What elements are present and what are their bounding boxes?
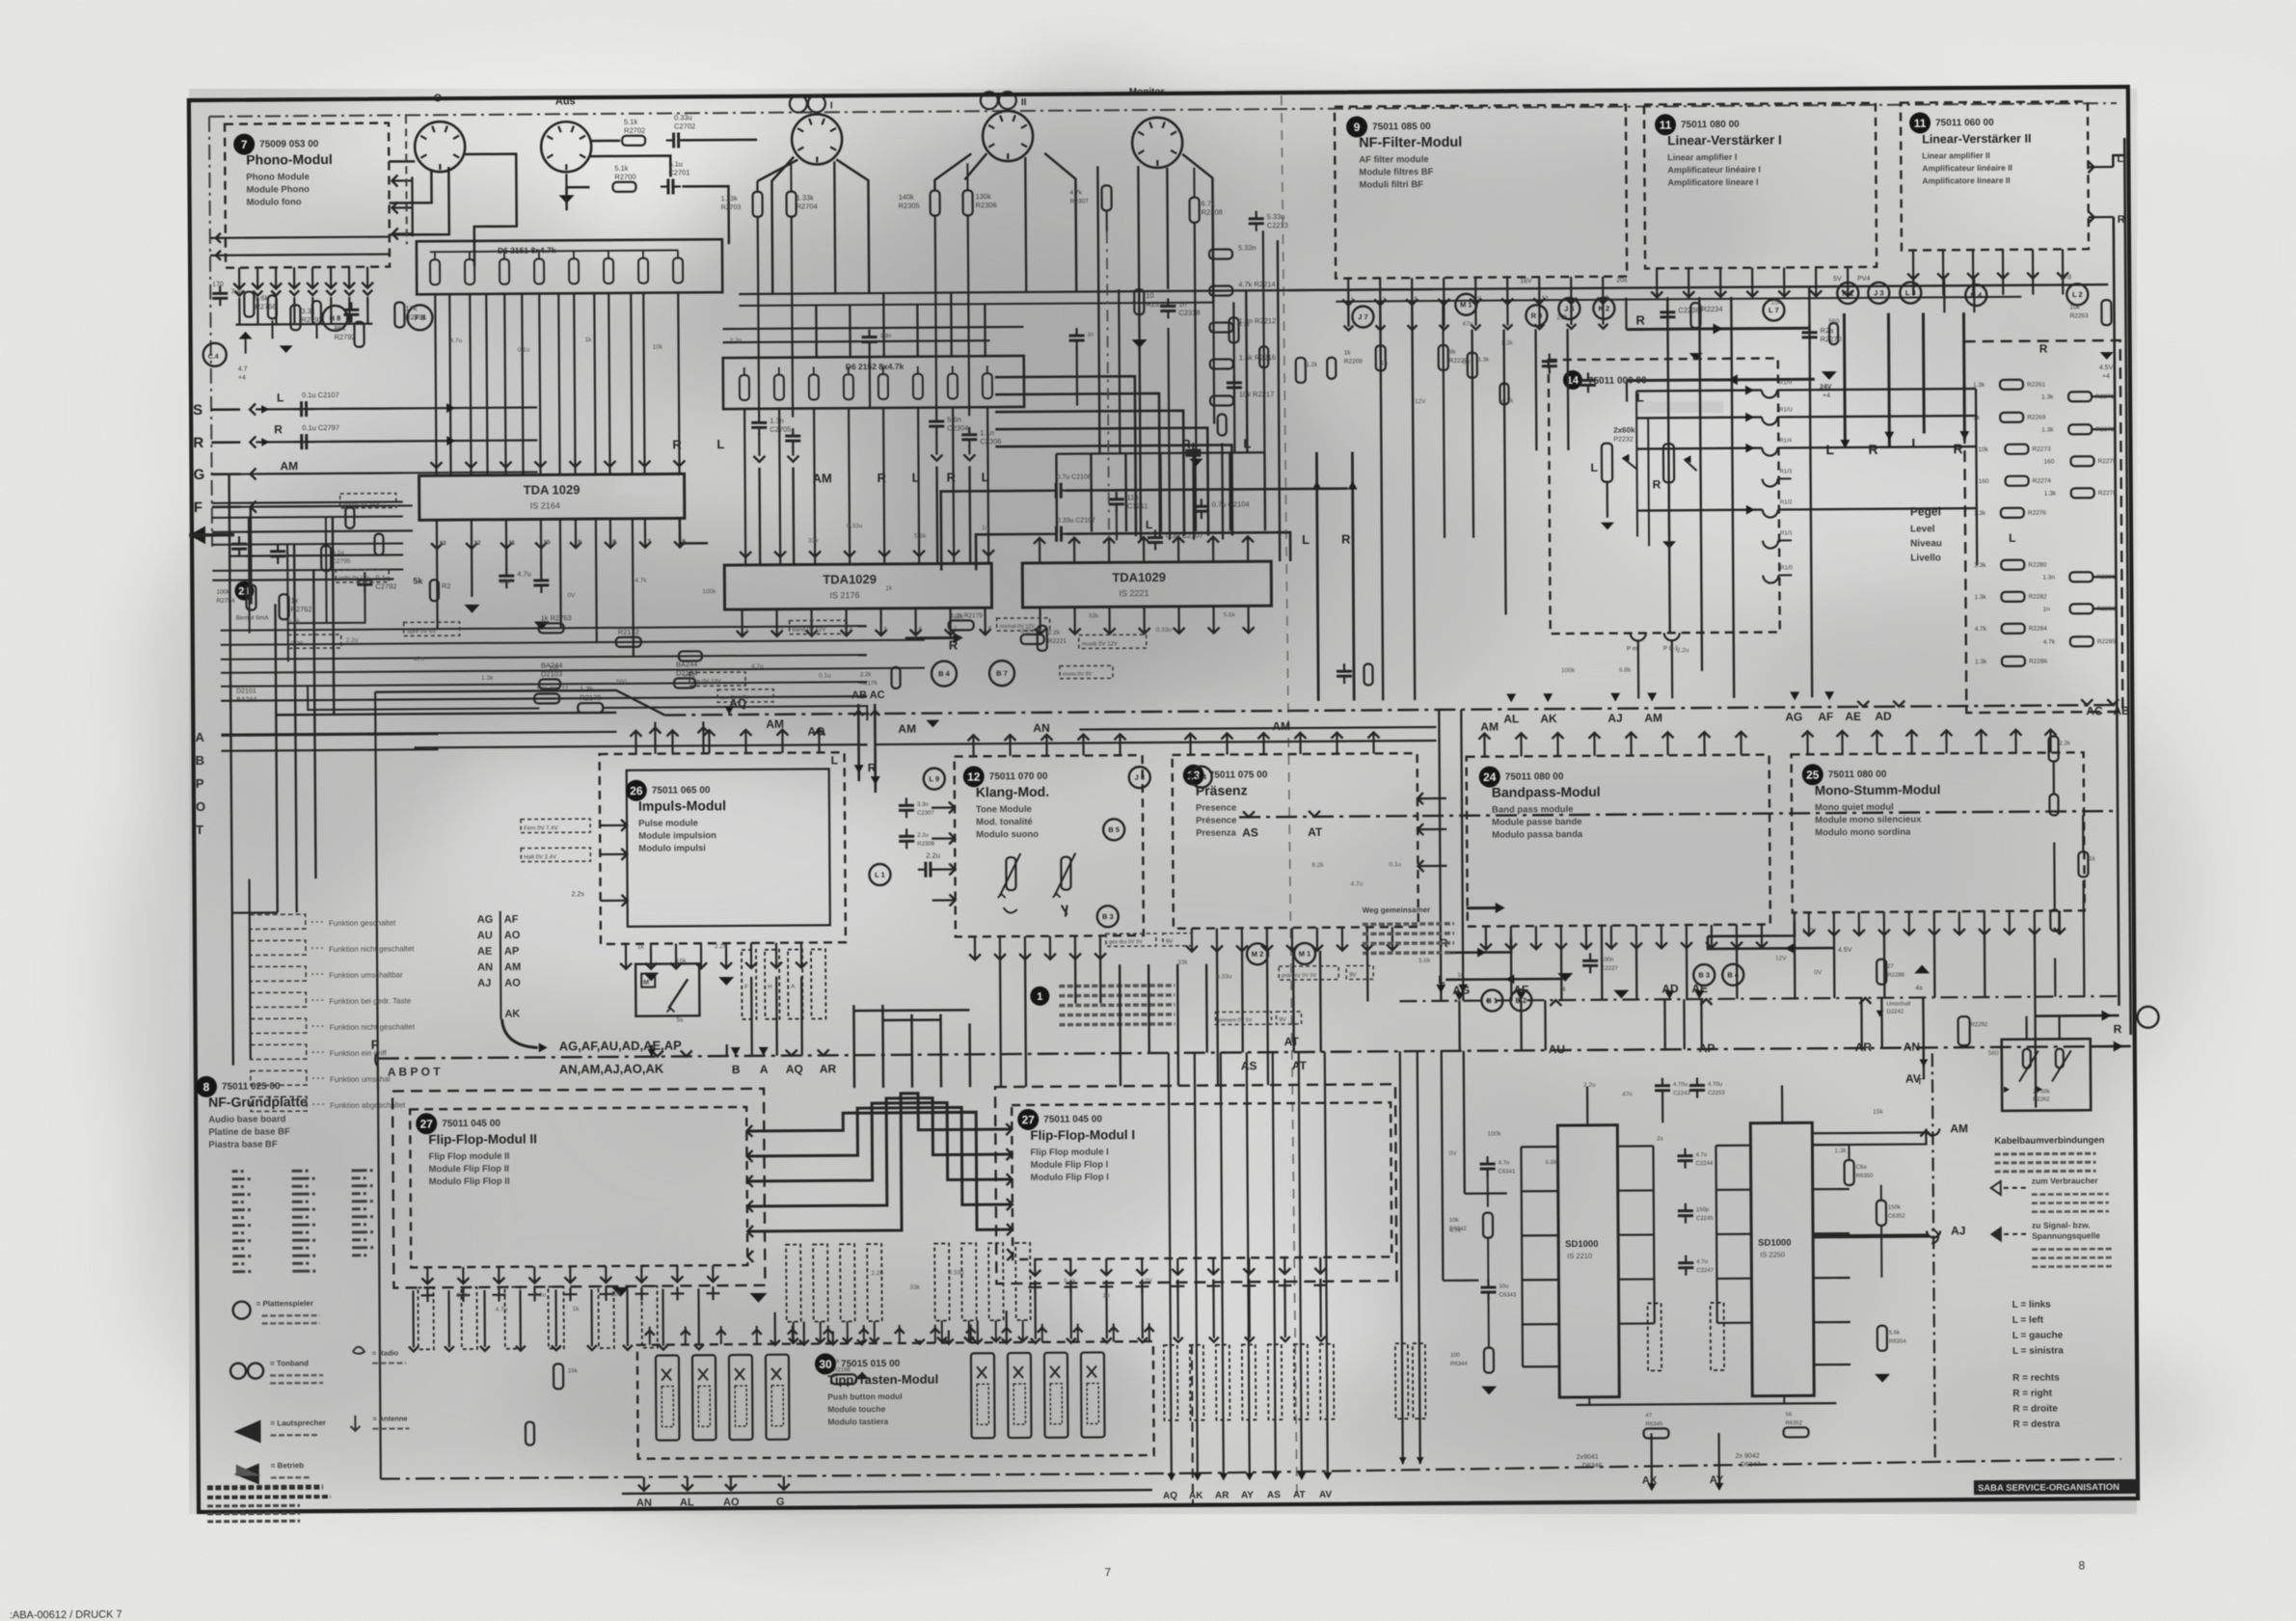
svg-text:Module Phono: Module Phono xyxy=(246,184,310,195)
module box Bandpass-Modul xyxy=(1467,755,1770,927)
svg-text:L: L xyxy=(716,437,724,451)
phono module pin chevrons row xyxy=(234,290,372,296)
svg-text:Push button modul: Push button modul xyxy=(827,1391,903,1402)
svg-text:R2a: R2a xyxy=(1821,326,1835,335)
wire L R right edge xyxy=(2113,138,2130,1035)
svg-text:AN: AN xyxy=(1033,721,1049,735)
svg-text:= Betrieb: = Betrieb xyxy=(271,1461,305,1470)
svg-text:16V: 16V xyxy=(1520,278,1532,284)
monitor right extra xyxy=(1185,414,1227,539)
svg-text:R6345: R6345 xyxy=(1645,1421,1662,1427)
svg-text:4.7u: 4.7u xyxy=(1351,881,1364,888)
FF1 left pins xyxy=(1006,1123,1013,1260)
svg-text:C1211: C1211 xyxy=(1127,501,1148,510)
bottom solid wire xyxy=(622,1490,1152,1494)
svg-text:5.6k: 5.6k xyxy=(914,533,927,540)
svg-text:R2792: R2792 xyxy=(335,333,356,341)
svg-text:AK: AK xyxy=(1540,712,1557,725)
mesh resistors xyxy=(534,611,1114,703)
wire praesenz verticals xyxy=(1120,951,1321,1086)
svg-text:L = sinistra: L = sinistra xyxy=(2012,1345,2064,1356)
svg-text:75015 015 00: 75015 015 00 xyxy=(841,1359,901,1369)
wire right mid verticals xyxy=(1809,285,2024,758)
svg-text:Module impulsion: Module impulsion xyxy=(638,830,716,842)
svg-text:C.4: C.4 xyxy=(208,354,219,361)
svg-text:1.33k: 1.33k xyxy=(797,193,815,202)
bus2 labels xyxy=(1242,811,1323,840)
ground at Aus connector xyxy=(558,174,574,203)
svg-text:A: A xyxy=(760,1063,769,1076)
svg-text:12V: 12V xyxy=(500,579,511,585)
AG AF list xyxy=(477,911,522,1020)
svg-text:R2286: R2286 xyxy=(2029,659,2048,665)
small parts near L7 xyxy=(1801,323,1841,345)
svg-text:10u: 10u xyxy=(1499,1283,1508,1289)
symbol legend xyxy=(230,1298,410,1484)
wire rows mid top xyxy=(723,327,1024,342)
svg-text:Modulo impulsi: Modulo impulsi xyxy=(638,843,706,853)
svg-text:T: T xyxy=(1917,1076,1923,1086)
svg-text:0.7u C2106: 0.7u C2106 xyxy=(1057,473,1092,480)
svg-text:9k: 9k xyxy=(1449,349,1457,356)
svg-text:4.7k: 4.7k xyxy=(1449,1228,1462,1234)
svg-text:Bandpass-Modul: Bandpass-Modul xyxy=(1492,784,1601,800)
svg-text:AB: AB xyxy=(2113,704,2130,717)
svg-text:75011 080 00: 75011 080 00 xyxy=(1505,771,1564,782)
svg-text:R2275: R2275 xyxy=(2097,458,2117,465)
left small parts xyxy=(212,281,276,316)
svg-text:Module touche: Module touche xyxy=(827,1404,885,1414)
Praesenz bottom pins xyxy=(1186,927,1398,952)
svg-text:Modulo tastiera: Modulo tastiera xyxy=(827,1417,888,1426)
Impuls left labels xyxy=(521,819,591,899)
svg-text:R: R xyxy=(193,435,203,451)
svg-text:R = destra: R = destra xyxy=(2012,1418,2060,1429)
svg-text:P2232: P2232 xyxy=(1613,437,1633,444)
wire LinII pin drops xyxy=(1913,278,2063,295)
bus AG-AF-AD-AE xyxy=(1399,996,2118,1001)
svg-text:130k: 130k xyxy=(976,192,992,201)
svg-text:Tone Module: Tone Module xyxy=(976,804,1032,815)
monitor extra parts xyxy=(1188,317,1269,466)
SABA service org xyxy=(1974,1479,2140,1495)
svg-text:Linear-Verstärker II: Linear-Verstärker II xyxy=(1922,132,2031,147)
bandpass nodes B1 B2 xyxy=(1481,989,1531,1011)
bus AO-AM dash-dot xyxy=(375,680,2119,1091)
svg-text:4.7u: 4.7u xyxy=(450,338,463,344)
svg-text:Niveau: Niveau xyxy=(1910,538,1942,549)
svg-text:10k: 10k xyxy=(2069,304,2080,311)
resistor array DIL2151 xyxy=(417,239,722,294)
labels L R L R xyxy=(1825,435,1962,457)
wire S R G F to module xyxy=(229,407,538,506)
svg-text:AU: AU xyxy=(1549,1042,1565,1056)
svg-text:R2700: R2700 xyxy=(614,173,635,181)
module box Linear-Verstaerker I xyxy=(1644,103,1877,269)
mid signal label columns xyxy=(786,1243,1031,1343)
svg-text:1k: 1k xyxy=(573,1306,581,1312)
wire klang drops xyxy=(1000,959,1101,1087)
svg-text:75011 045 00: 75011 045 00 xyxy=(1043,1114,1102,1124)
svg-text:II: II xyxy=(1021,97,1027,108)
page number 8 xyxy=(2078,1558,2085,1572)
svg-text:6.8k: 6.8k xyxy=(1546,1159,1558,1166)
svg-text:4.70u: 4.70u xyxy=(1708,1082,1722,1088)
svg-text:L 7: L 7 xyxy=(1769,306,1779,314)
svg-text:2.2k: 2.2k xyxy=(2060,741,2071,746)
capacitor C1211 xyxy=(1109,492,1148,541)
wire mid mesh rows xyxy=(221,726,1436,749)
svg-text:SD1000: SD1000 xyxy=(1758,1237,1791,1248)
svg-text:L = left: L = left xyxy=(2012,1315,2044,1326)
wire QQII left pin xyxy=(934,153,971,190)
wire left verticals xyxy=(230,473,336,913)
svg-text:AS: AS xyxy=(1242,825,1258,839)
svg-text:B: B xyxy=(196,753,204,768)
R arrow below U2 xyxy=(905,633,963,653)
svg-text:4.7k: 4.7k xyxy=(635,578,647,584)
svg-text:C2702: C2702 xyxy=(674,122,695,130)
svg-text:Amplificatore lineare I: Amplificatore lineare I xyxy=(1667,177,1758,188)
NF filter drop wires xyxy=(1348,305,1445,701)
svg-text:Module Flip Flop I: Module Flip Flop I xyxy=(1031,1159,1109,1171)
function legend list xyxy=(250,913,417,1111)
svg-text:2.2k: 2.2k xyxy=(1048,630,1061,636)
left parts 2 xyxy=(290,302,426,347)
svg-text:75011 085 00: 75011 085 00 xyxy=(1372,122,1431,132)
svg-text:1n: 1n xyxy=(1381,360,1389,366)
caps above SD xyxy=(1655,1077,1726,1124)
small value labels xyxy=(285,298,2000,1314)
svg-text:AK: AK xyxy=(1189,1491,1203,1501)
svg-text:12: 12 xyxy=(474,541,481,547)
svg-text:C2245: C2245 xyxy=(1696,1216,1714,1222)
svg-text:Weg gemeinsamer: Weg gemeinsamer xyxy=(1363,905,1431,914)
svg-text:Level: Level xyxy=(1910,524,1935,534)
svg-text:R2308: R2308 xyxy=(917,842,934,848)
U3 bottom pins xyxy=(1035,606,1255,635)
klang input caps xyxy=(899,797,940,878)
wire bandpass drops xyxy=(1511,948,1737,1001)
Praesenz right pins xyxy=(1418,793,1447,872)
svg-text:AF: AF xyxy=(1818,710,1833,723)
svg-text:AT: AT xyxy=(1293,1490,1306,1500)
fold signal verticals xyxy=(1311,452,1359,701)
svg-text:75011 045 00: 75011 045 00 xyxy=(442,1119,500,1129)
wire NF pins down xyxy=(1343,304,1607,331)
svg-text:17k: 17k xyxy=(405,304,417,312)
svg-text:26: 26 xyxy=(630,784,643,797)
wire right mid pills drop xyxy=(2055,880,2085,996)
svg-text:R = droite: R = droite xyxy=(2012,1403,2058,1414)
svg-text:TDA 1029: TDA 1029 xyxy=(524,482,581,497)
node L5 xyxy=(924,769,945,790)
Klang pots xyxy=(997,853,1075,918)
svg-text:M 1: M 1 xyxy=(1460,300,1472,309)
svg-text:0.33u C2107: 0.33u C2107 xyxy=(1057,517,1095,524)
P label and ABPOT bus xyxy=(371,1037,445,1478)
svg-text:B 4: B 4 xyxy=(938,669,951,678)
svg-text:Modulo mono sordina: Modulo mono sordina xyxy=(1815,827,1911,839)
svg-text:13: 13 xyxy=(440,541,446,547)
svg-text:A B P O T: A B P O T xyxy=(388,1065,441,1078)
svg-text:Moduli filtri BF: Moduli filtri BF xyxy=(1359,179,1423,190)
svg-text:0V: 0V xyxy=(1814,969,1823,976)
svg-text:AM: AM xyxy=(813,471,832,485)
svg-text:B 1: B 1 xyxy=(1487,996,1499,1005)
svg-text:J 6: J 6 xyxy=(1564,305,1575,313)
small gnd left xyxy=(238,332,253,382)
svg-text:8: 8 xyxy=(2078,1558,2085,1572)
svg-text:C6a: C6a xyxy=(1856,1165,1868,1171)
svg-text:10k: 10k xyxy=(1449,1218,1460,1224)
Umschalt D2242 xyxy=(1877,1002,1911,1017)
svg-text:R2308: R2308 xyxy=(1202,208,1223,217)
connector circles J7 M8 M1 xyxy=(1352,293,1568,328)
svg-text:1: 1 xyxy=(1037,991,1042,1003)
svg-text:J 3: J 3 xyxy=(1874,288,1884,297)
svg-text:L: L xyxy=(982,470,989,484)
svg-text:Modulo Flip Flop II: Modulo Flip Flop II xyxy=(429,1176,510,1188)
svg-text:AJ: AJ xyxy=(477,978,491,989)
Kabelbaum legend xyxy=(1990,1135,2114,1267)
svg-text:R2278: R2278 xyxy=(2098,490,2118,497)
bus collect arrow xyxy=(501,1018,547,1052)
svg-text:0.1u: 0.1u xyxy=(819,672,831,679)
svg-text:2.2k: 2.2k xyxy=(860,672,872,678)
verticals modules to buses xyxy=(1434,706,1924,1083)
svg-text:L: L xyxy=(277,391,284,404)
IC SD1000 #2 xyxy=(1750,1122,1814,1395)
svg-text:Klang-Mod.: Klang-Mod. xyxy=(976,784,1049,800)
svg-text:27: 27 xyxy=(420,1118,434,1131)
svg-text:1n: 1n xyxy=(1088,332,1094,338)
svg-text:Flip Flop module I: Flip Flop module I xyxy=(1030,1147,1108,1158)
svg-text:17d: 17d xyxy=(2060,274,2071,281)
Impuls bottom pins xyxy=(620,943,807,969)
svg-text:ges dru 0V 5V: ges dru 0V 5V xyxy=(1109,939,1143,945)
svg-text:C2213: C2213 xyxy=(1267,221,1288,230)
svg-text:4.7u: 4.7u xyxy=(1695,1152,1707,1158)
left cluster dark parts xyxy=(268,295,360,353)
R2263 at L2 xyxy=(2069,300,2114,380)
svg-text:L: L xyxy=(1146,518,1152,531)
svg-text:12V: 12V xyxy=(1415,398,1426,405)
right separation vertical xyxy=(1926,1053,1942,1460)
svg-text:D6346: D6346 xyxy=(1582,1463,1603,1470)
svg-text:AY: AY xyxy=(1241,1490,1254,1500)
U3 top pins xyxy=(1034,536,1254,563)
svg-text:86k: 86k xyxy=(334,324,345,333)
labels R L U3 xyxy=(1181,436,1251,451)
svg-text:J 7: J 7 xyxy=(1358,312,1368,321)
Aus DIN connector xyxy=(541,95,592,172)
svg-text:Amplificateur linéaire II: Amplificateur linéaire II xyxy=(1922,163,2012,174)
SD bottom labels xyxy=(1577,1453,1761,1470)
svg-text:0.1u C2107: 0.1u C2107 xyxy=(302,391,339,399)
LinII bottom pins xyxy=(1907,249,2068,279)
svg-text:2.2n: 2.2n xyxy=(715,943,727,950)
Impuls below labels xyxy=(742,949,826,1019)
fold dash vertical mid xyxy=(1107,231,1109,543)
resistor R2703 1.33k xyxy=(721,192,765,418)
bank right drops xyxy=(2092,396,2116,608)
MonoStumm top pins xyxy=(1801,729,2056,754)
svg-text:R2794: R2794 xyxy=(216,598,235,605)
svg-text:47: 47 xyxy=(1645,1413,1652,1418)
svg-text:7: 7 xyxy=(1104,1565,1111,1579)
svg-text:NF-Grundplatte: NF-Grundplatte xyxy=(208,1094,308,1110)
IC SD1000 #1 xyxy=(1557,1125,1619,1397)
module box Flip-Flop-Modul I xyxy=(995,1084,1396,1283)
svg-text:R1/0: R1/0 xyxy=(1780,565,1793,571)
svg-text:1k: 1k xyxy=(2089,856,2095,862)
svg-text:1n: 1n xyxy=(2043,607,2051,613)
svg-text:B 7: B 7 xyxy=(996,669,1008,678)
svg-text:R: R xyxy=(1635,312,1645,327)
capacitor C2108 on R line xyxy=(294,423,339,449)
wire monostumm drops xyxy=(1834,934,2036,1109)
capacitor C2107b xyxy=(976,516,1290,570)
svg-text:5s: 5s xyxy=(676,1016,684,1023)
FF interconnect bridges xyxy=(746,1093,1013,1231)
IC TDA1029 U1 xyxy=(419,473,685,520)
svg-text:L: L xyxy=(1590,461,1597,474)
svg-text:R6344: R6344 xyxy=(1450,1362,1468,1367)
svg-text:5.6k: 5.6k xyxy=(1418,958,1431,964)
svg-text:C2238: C2238 xyxy=(1678,306,1699,314)
bus B-A-AQ-AR dash-dot xyxy=(378,1046,2119,1059)
svg-text:R1/3: R1/3 xyxy=(1780,469,1793,474)
svg-text:27: 27 xyxy=(1022,1113,1036,1126)
svg-text:47n: 47n xyxy=(1622,1092,1633,1098)
svg-text:AV: AV xyxy=(1319,1490,1333,1500)
bus AS-AT dash-dot xyxy=(1239,811,2117,817)
svg-text:R = right: R = right xyxy=(2012,1389,2053,1399)
circles K4 L2 xyxy=(1965,284,2088,306)
svg-text:5.1k: 5.1k xyxy=(614,164,628,173)
svg-text:AF: AF xyxy=(504,914,519,926)
svg-text:B 3: B 3 xyxy=(1102,912,1114,921)
svg-text:C2318: C2318 xyxy=(1178,309,1200,317)
svg-text:Umschalt: Umschalt xyxy=(1886,1002,1910,1008)
svg-text:band 0V 12V: band 0V 12V xyxy=(793,627,826,633)
wire monitor mesh xyxy=(1055,222,1265,532)
svg-text:4.7u: 4.7u xyxy=(1696,1259,1708,1265)
svg-text:L 9: L 9 xyxy=(929,774,939,783)
svg-text:Platine de base BF: Platine de base BF xyxy=(208,1126,290,1138)
svg-text:4s: 4s xyxy=(1915,985,1923,991)
svg-text:4.5V: 4.5V xyxy=(1838,947,1852,954)
svg-text:+4: +4 xyxy=(1823,392,1830,399)
svg-text:O: O xyxy=(434,93,443,104)
svg-text:5.6k: 5.6k xyxy=(1224,611,1236,618)
svg-text:1.3k: 1.3k xyxy=(1478,358,1490,364)
resistor R2307 xyxy=(1069,168,1223,232)
module box Linear-Verstaerker II xyxy=(1901,101,2089,250)
wire U1 pin6 down xyxy=(680,518,708,543)
svg-text:TDA1029: TDA1029 xyxy=(1112,570,1166,584)
svg-text:5V: 5V xyxy=(1833,276,1842,283)
monostumm loop wires xyxy=(1708,921,1852,955)
mesh parts 2 xyxy=(860,663,1373,728)
svg-text:Mod. tonalité: Mod. tonalité xyxy=(976,817,1033,827)
bus3 labels xyxy=(731,1043,1308,1076)
svg-text:R2285: R2285 xyxy=(2097,638,2117,645)
svg-text:Presence: Presence xyxy=(1196,802,1236,813)
svg-text:24: 24 xyxy=(1483,770,1497,784)
bandpass caps gnds xyxy=(1557,953,1629,999)
wire left collect xyxy=(221,696,867,716)
svg-text:B 3: B 3 xyxy=(1698,971,1710,980)
svg-text:C6341: C6341 xyxy=(1499,1169,1516,1175)
svg-text:0.33u: 0.33u xyxy=(674,113,692,122)
svg-text:R2273: R2273 xyxy=(2032,446,2051,453)
module box level pot 75011 000 00 xyxy=(1549,358,1780,634)
SD2 right network xyxy=(1812,1130,1939,1383)
svg-text:2x60k: 2x60k xyxy=(1613,426,1635,435)
svg-text:560: 560 xyxy=(616,679,627,686)
svg-text:musik 0V 12V: musik 0V 12V xyxy=(1082,641,1118,647)
svg-text:C2792: C2792 xyxy=(375,581,396,590)
svg-text:Spre 0V 6V: Spre 0V 6V xyxy=(407,629,437,635)
svg-text:0V: 0V xyxy=(1448,1150,1457,1157)
svg-text:R2284: R2284 xyxy=(2029,626,2048,633)
svg-text:AU: AU xyxy=(477,930,493,941)
monitor right column xyxy=(1209,243,1277,405)
NF-Grundplatte board outline top xyxy=(209,103,2117,117)
wire QQII drops xyxy=(931,431,975,460)
svg-text:2.2s: 2.2s xyxy=(572,891,585,898)
U1 below components xyxy=(464,548,550,630)
svg-text:SD1000: SD1000 xyxy=(1565,1239,1598,1250)
pot box bottom exits xyxy=(1627,633,1680,698)
Klang top pins xyxy=(967,734,1125,756)
wire monitor link xyxy=(1168,236,1215,540)
svg-text:R: R xyxy=(878,471,887,485)
phono EQ network cluster xyxy=(212,493,404,662)
svg-text:R2261: R2261 xyxy=(2027,382,2046,389)
svg-text:R1/R: R1/R xyxy=(1779,380,1793,386)
svg-text:1k: 1k xyxy=(885,585,893,592)
svg-text:IS 2221: IS 2221 xyxy=(1119,588,1148,598)
svg-text:1.3k: 1.3k xyxy=(2041,426,2054,433)
resistor R2311 10 xyxy=(1131,289,1168,348)
svg-text:AN: AN xyxy=(477,961,493,973)
svg-text:5.6k: 5.6k xyxy=(1064,1279,1076,1285)
svg-text:R2172: R2172 xyxy=(618,628,639,636)
svg-text:Piastra base BF: Piastra base BF xyxy=(208,1139,278,1149)
svg-text:C2247: C2247 xyxy=(1696,1268,1714,1274)
svg-text:= Plattenspieler: = Plattenspieler xyxy=(257,1299,313,1308)
svg-text:9V: 9V xyxy=(1166,939,1173,945)
svg-text:100k: 100k xyxy=(1561,667,1576,674)
svg-text:Halt 0V 2.4V: Halt 0V 2.4V xyxy=(524,854,556,860)
C2238 R2234 xyxy=(1660,303,1723,361)
svg-text:Flip-Flop-Modul II: Flip-Flop-Modul II xyxy=(428,1131,537,1147)
svg-text:0.33u: 0.33u xyxy=(948,1269,964,1276)
svg-text:H: H xyxy=(768,985,771,990)
svg-text:L 1: L 1 xyxy=(875,871,885,879)
svg-text:4.7: 4.7 xyxy=(238,366,248,373)
svg-text:170: 170 xyxy=(212,282,224,288)
svg-text:9V: 9V xyxy=(1280,1017,1286,1023)
svg-text:15k: 15k xyxy=(1770,299,1781,306)
wire staircase to U3 xyxy=(995,375,1232,537)
svg-text:AJ: AJ xyxy=(1607,712,1622,725)
wire impuls top xyxy=(649,721,709,753)
svg-text:AJ: AJ xyxy=(1951,1224,1965,1237)
